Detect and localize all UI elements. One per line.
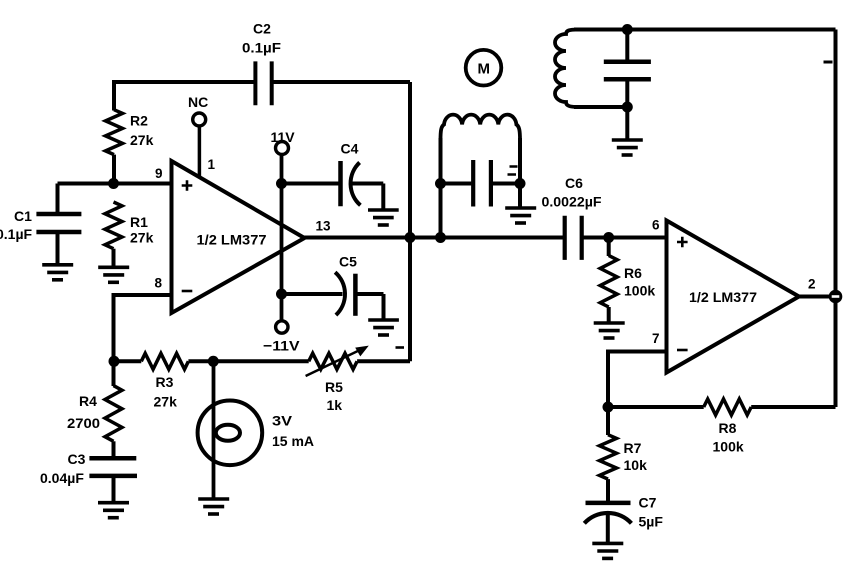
- resistor R3: [141, 353, 188, 369]
- capacitor C5: [335, 272, 383, 320]
- wire R6 to ground: [607, 307, 611, 323]
- wire top feedback wire left segment: [114, 80, 256, 84]
- svg-text:0.1µF: 0.1µF: [0, 226, 33, 242]
- wire node 8 down to R4: [112, 361, 116, 386]
- svg-text:R3: R3: [156, 374, 174, 390]
- svg-text:0.04µF: 0.04µF: [40, 470, 84, 486]
- node tank1 cap right junction: [515, 178, 526, 189]
- wire R4 to C3: [112, 441, 116, 456]
- svg-text:5µF: 5µF: [639, 514, 664, 530]
- wire tank1 right to ground: [518, 184, 522, 209]
- node tank2 bottom junction: [622, 102, 633, 113]
- wire feedback right vertical: [408, 82, 412, 361]
- wire right vertical from tank2 to R8: [834, 30, 838, 408]
- node 8 junction: [109, 356, 120, 367]
- wire R3 to lamp node to R5: [188, 359, 308, 363]
- svg-text:NC: NC: [188, 94, 208, 110]
- resistor R4: [105, 386, 122, 442]
- svg-text:3V: 3V: [272, 413, 293, 429]
- node lamp junction: [208, 356, 219, 367]
- capacitor C2: [255, 61, 271, 105]
- ground under C5: [368, 320, 399, 335]
- svg-text:1/2 LM377: 1/2 LM377: [197, 233, 267, 248]
- wire R7 to C7: [606, 479, 610, 501]
- ground under C4: [368, 210, 399, 225]
- lamp 3V 15mA: [198, 361, 263, 499]
- svg-text:9: 9: [155, 166, 163, 181]
- wire tank1 cap wire right: [493, 182, 520, 186]
- wire pin 7 input: [608, 352, 667, 408]
- svg-text:27k: 27k: [130, 132, 154, 148]
- svg-text:C6: C6: [565, 175, 583, 191]
- svg-text:R2: R2: [130, 113, 148, 129]
- svg-text:1: 1: [208, 157, 216, 172]
- wire pin 8 input: [114, 295, 172, 361]
- wire 11V node to C4: [282, 182, 339, 186]
- capacitor C4: [341, 161, 384, 210]
- svg-text:15 mA: 15 mA: [272, 433, 314, 449]
- svg-text:R5: R5: [325, 379, 343, 395]
- svg-text:C3: C3: [68, 451, 86, 467]
- svg-text:8: 8: [155, 276, 163, 291]
- node feedback-main junction: [405, 232, 416, 243]
- inductor L2 top right coil: [555, 30, 578, 108]
- wire -11V node to C5: [282, 292, 343, 296]
- wire left vertical from top wire to R2: [112, 80, 116, 111]
- resistor R5: [309, 353, 357, 369]
- wire node 6 to R6: [607, 238, 611, 257]
- svg-text:M: M: [478, 61, 491, 78]
- output terminal pin 2: [829, 290, 843, 304]
- wire top feedback wire right segment: [272, 80, 410, 84]
- node tank1 cap left junction: [435, 178, 446, 189]
- ground under C7: [592, 543, 623, 558]
- capacitor C3: [89, 458, 137, 502]
- resistor R8: [704, 399, 752, 415]
- resistor R2: [106, 110, 123, 155]
- svg-text:C7: C7: [639, 495, 657, 511]
- svg-text:0.1µF: 0.1µF: [242, 40, 281, 56]
- svg-text:27k: 27k: [130, 230, 154, 246]
- svg-text:7: 7: [652, 331, 660, 346]
- svg-text:0.0022µF: 0.0022µF: [542, 194, 602, 210]
- resistor R1: [105, 202, 122, 249]
- node 6 junction: [603, 232, 614, 243]
- wire C1 to node 9: [58, 182, 114, 186]
- svg-text:C5: C5: [339, 254, 357, 270]
- svg-text:1/2 LM377: 1/2 LM377: [689, 290, 757, 305]
- scan artifact dashes near tank1 right plate: [508, 167, 518, 175]
- ground under R6: [594, 323, 625, 338]
- wire tank2 top: [574, 28, 836, 32]
- wire tank2 to ground: [625, 107, 629, 140]
- wire pin 9 input: [114, 182, 172, 186]
- svg-text:C2: C2: [253, 21, 271, 37]
- capacitor C6: [565, 216, 582, 260]
- svg-text:2: 2: [808, 277, 816, 292]
- wire tank2 cap connector bottom: [625, 81, 629, 107]
- capacitor C7: [584, 503, 631, 544]
- arrow of potentiometer R5: [306, 346, 369, 376]
- 11V terminal: [276, 142, 289, 155]
- svg-text:100k: 100k: [713, 439, 744, 455]
- wire node 8 to R3: [114, 359, 141, 363]
- wire node 7 to R8: [608, 405, 704, 409]
- ground under C3: [98, 503, 129, 518]
- resistor R7: [600, 435, 617, 479]
- wire R1 bottom to ground: [112, 249, 116, 267]
- resistor R6: [600, 256, 617, 308]
- node tank2 top junction: [622, 24, 633, 35]
- wire power rail through U1: [280, 155, 284, 321]
- svg-text:100k: 100k: [624, 283, 655, 299]
- node tank1 left main junction: [435, 232, 446, 243]
- svg-text:2700: 2700: [67, 415, 100, 431]
- svg-text:C4: C4: [341, 141, 359, 157]
- wire R5 right to feedback vertical: [357, 359, 410, 363]
- wire main line right of C6 to pin 6: [582, 236, 667, 240]
- svg-text:R4: R4: [79, 393, 97, 409]
- node 7 junction: [603, 402, 614, 413]
- wire tank2 bottom: [574, 105, 627, 109]
- wire R2 bottom to node 9: [112, 155, 116, 184]
- wire R8 to right vertical: [751, 405, 835, 409]
- svg-text:10k: 10k: [624, 457, 648, 473]
- wire main output line (pin 13) left of C6: [303, 236, 565, 240]
- svg-text:R7: R7: [624, 440, 642, 456]
- ground under tank2: [612, 140, 643, 155]
- NC terminal: [193, 113, 206, 177]
- -11V terminal: [276, 321, 288, 333]
- op-amp U1 1/2 LM377: [172, 161, 305, 313]
- op-amp U2 1/2 LM377: [667, 221, 800, 373]
- ground under R1: [98, 267, 129, 282]
- svg-text:11V: 11V: [271, 129, 296, 145]
- svg-text:6: 6: [652, 218, 660, 233]
- wire node 7 to R7: [606, 407, 610, 435]
- capacitor tank1: [473, 160, 491, 207]
- scan artifact dash near feedback box corner: [396, 346, 405, 349]
- svg-text:1k: 1k: [327, 397, 343, 413]
- capacitor tank2: [604, 62, 651, 79]
- ground under tank1: [505, 208, 536, 223]
- svg-text:27k: 27k: [154, 394, 178, 410]
- motor M: [466, 50, 502, 86]
- node 11V junction: [276, 178, 287, 189]
- wire tank2 cap connector top: [625, 30, 629, 60]
- node 9 junction: [108, 178, 119, 189]
- capacitor C1: [36, 184, 81, 265]
- svg-text:R8: R8: [719, 420, 737, 436]
- inductor L1 tank coil: [441, 115, 521, 140]
- svg-text:R1: R1: [130, 214, 148, 230]
- node -11V junction: [276, 289, 287, 300]
- ground under lamp: [198, 499, 229, 514]
- svg-text:−11V: −11V: [263, 338, 300, 354]
- scan artifact dash near top right vertical: [824, 61, 833, 64]
- ground under C1: [42, 265, 73, 280]
- wire L1 right vertical to cap node: [518, 138, 522, 184]
- wire L1 left vertical: [439, 138, 443, 238]
- wire tank1 cap wire left: [441, 182, 472, 186]
- svg-text:13: 13: [316, 219, 332, 234]
- svg-text:R6: R6: [624, 265, 642, 281]
- svg-text:C1: C1: [14, 208, 32, 224]
- wire U2 output to terminal: [799, 295, 836, 299]
